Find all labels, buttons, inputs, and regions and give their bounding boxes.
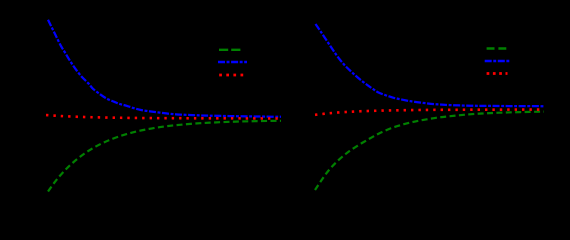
right legend red dotted sample — [487, 72, 508, 75]
left panel blue dash-dot curve — [48, 20, 281, 117]
left legend green dashed sample — [219, 49, 241, 51]
left legend blue dash-dot sample — [218, 61, 247, 63]
right panel blue dash-dot curve — [316, 24, 545, 106]
right panel red dotted curve — [315, 110, 544, 115]
right legend green dashed sample — [487, 47, 507, 49]
left panel red dotted curve — [46, 115, 281, 118]
left panel green dashed curve — [48, 121, 281, 192]
right legend blue dash-dot sample — [485, 60, 510, 62]
right panel green dashed curve — [315, 112, 544, 190]
left legend red dotted sample — [219, 74, 243, 77]
